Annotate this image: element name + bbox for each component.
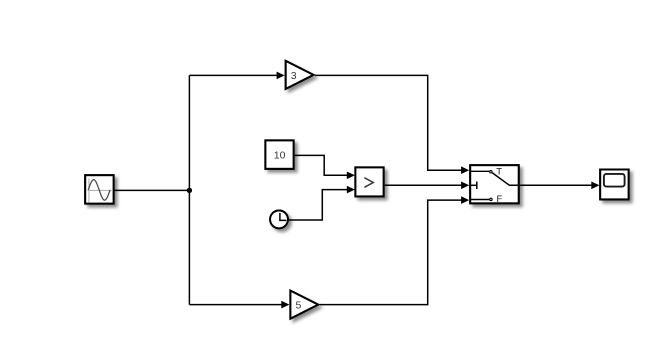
svg-text:5: 5 (295, 300, 301, 312)
svg-text:3: 3 (291, 70, 297, 82)
wire junction to Gain5 (189, 301, 289, 309)
wire junction to Gain3 (189, 72, 284, 80)
gain block Gain3 value 3 (286, 61, 314, 89)
switch block (470, 165, 519, 204)
wire Clock to Relational bottom input (288, 186, 355, 220)
svg-text:10: 10 (274, 150, 286, 162)
svg-text:T: T (496, 166, 502, 177)
switch pin F port circle (490, 198, 492, 200)
node junction (187, 188, 192, 193)
switch pin F port line (470, 199, 489, 201)
scope screen (604, 174, 625, 187)
relational operator block > (355, 167, 383, 196)
svg-text:F: F (497, 193, 503, 204)
wire Gain5 to Switch bottom input (320, 196, 470, 304)
switch pin control stub (470, 184, 477, 186)
wire Relational to Switch middle input (385, 182, 470, 190)
switch pin T port circle (490, 171, 492, 173)
switch pin T port line (470, 170, 489, 172)
wire vertical branch trunk (188, 75, 190, 304)
wire Gain3 to Switch top input (315, 75, 469, 174)
gain block Gain5 value 5 (290, 291, 318, 319)
wire Switch to Scope (520, 182, 600, 190)
clock block (270, 211, 288, 229)
scope block (600, 170, 628, 200)
wire Constant to Relational top input (295, 155, 355, 179)
sine wave source block Sine Wave (85, 175, 113, 203)
wire from Sine Wave to junction (114, 189, 189, 191)
constant block value 10 (265, 140, 293, 168)
switch throw arm (492, 173, 519, 185)
